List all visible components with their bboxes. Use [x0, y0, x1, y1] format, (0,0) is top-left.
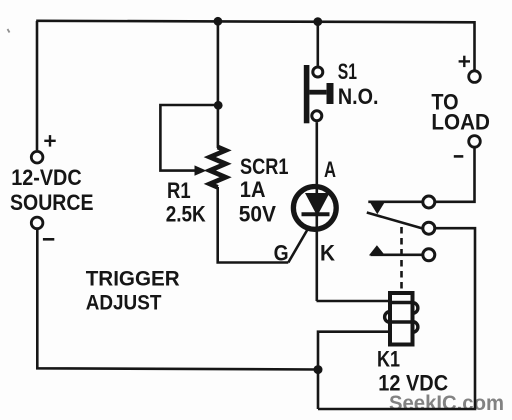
relay common armature arm — [367, 213, 422, 229]
label - at load — [454, 155, 464, 158]
wire from - terminal down and along bottom to junction J3 — [37, 230, 318, 370]
terminal + of 12-VDC source — [31, 151, 43, 163]
wire cathode to relay coil top terminal — [317, 300, 391, 303]
wire from R1 bottom to gate corner — [218, 187, 289, 263]
svg-text:SeekIC.com: SeekIC.com — [389, 392, 504, 415]
junction dot J1 top rail R1 branch — [214, 17, 223, 26]
terminal - to load — [469, 136, 481, 148]
wire top rail to load + terminal — [473, 21, 476, 70]
pushbutton S1 plunger stem — [309, 90, 326, 95]
pushbutton S1 top contact — [313, 67, 323, 77]
wire from S1 bottom through SCR to cathode corner — [315, 122, 318, 301]
pushbutton S1 plunger cap — [327, 83, 334, 104]
wire wiper loop from J4 — [160, 105, 217, 171]
svg-text:LOAD: LOAD — [431, 110, 490, 135]
svg-text:G: G — [274, 241, 289, 266]
svg-text:A: A — [324, 157, 336, 182]
svg-text:12 VDC: 12 VDC — [378, 370, 448, 395]
wire gate lead diagonal to SCR — [288, 230, 307, 263]
label - at source negative — [43, 238, 54, 241]
wire relay common to right side and bottom rail — [318, 228, 475, 409]
junction dot J2 top rail S1 branch — [313, 17, 322, 26]
relay armature pivot arrow — [369, 201, 386, 214]
svg-text:50V: 50V — [239, 202, 276, 227]
wire NC contact lead — [371, 254, 422, 257]
stray speck top-left — [8, 29, 10, 33]
svg-text:1A: 1A — [240, 177, 266, 202]
SCR1 body circle — [293, 187, 336, 230]
svg-text:K1: K1 — [377, 347, 400, 372]
potentiometer R1 zigzag body — [210, 147, 226, 187]
wire relay pivot lead to NO contact — [368, 201, 422, 204]
label + at source positive — [44, 135, 55, 147]
relay K1 actuation dashed link — [400, 227, 403, 291]
wire coil bottom terminal to J3 and down — [318, 332, 391, 409]
svg-text:R1: R1 — [167, 178, 191, 203]
svg-text:N.O.: N.O. — [338, 84, 379, 109]
wire from J2 to S1 top contact — [316, 21, 319, 66]
terminal + to load — [469, 71, 481, 83]
svg-text:12-VDC: 12-VDC — [11, 165, 82, 190]
svg-text:SCR1: SCR1 — [240, 154, 289, 179]
svg-text:S1: S1 — [338, 59, 357, 84]
svg-text:SOURCE: SOURCE — [10, 190, 94, 215]
svg-text:ADJUST: ADJUST — [86, 292, 162, 315]
relay NO contact terminal — [423, 196, 435, 208]
svg-text:TRIGGER: TRIGGER — [86, 268, 180, 291]
wiper arrow of potentiometer R1 — [195, 165, 207, 175]
relay K1 coil body — [385, 293, 418, 345]
wire top rail — [36, 21, 474, 23]
pushbutton S1 bottom contact — [312, 111, 322, 121]
pushbutton S1 moving bar — [304, 65, 310, 123]
SCR1 cathode bar — [302, 212, 330, 216]
relay common terminal — [423, 222, 435, 234]
wire R1 branch vertical from J1 to zigzag top — [217, 21, 220, 148]
label + at load — [459, 56, 470, 67]
relay NC contact arrow — [369, 245, 385, 255]
svg-text:K: K — [320, 241, 335, 266]
relay NC contact terminal — [423, 249, 435, 261]
wire left vertical from top rail to + terminal — [36, 21, 39, 150]
junction dot J3 bottom rail — [314, 365, 323, 374]
svg-text:2.5K: 2.5K — [166, 201, 206, 226]
junction dot J4 wiper tap — [214, 101, 223, 110]
SCR1 thyristor triangle — [305, 193, 330, 216]
terminal - of 12-VDC source — [31, 217, 43, 229]
wire load - terminal to relay NO contact — [436, 148, 475, 202]
